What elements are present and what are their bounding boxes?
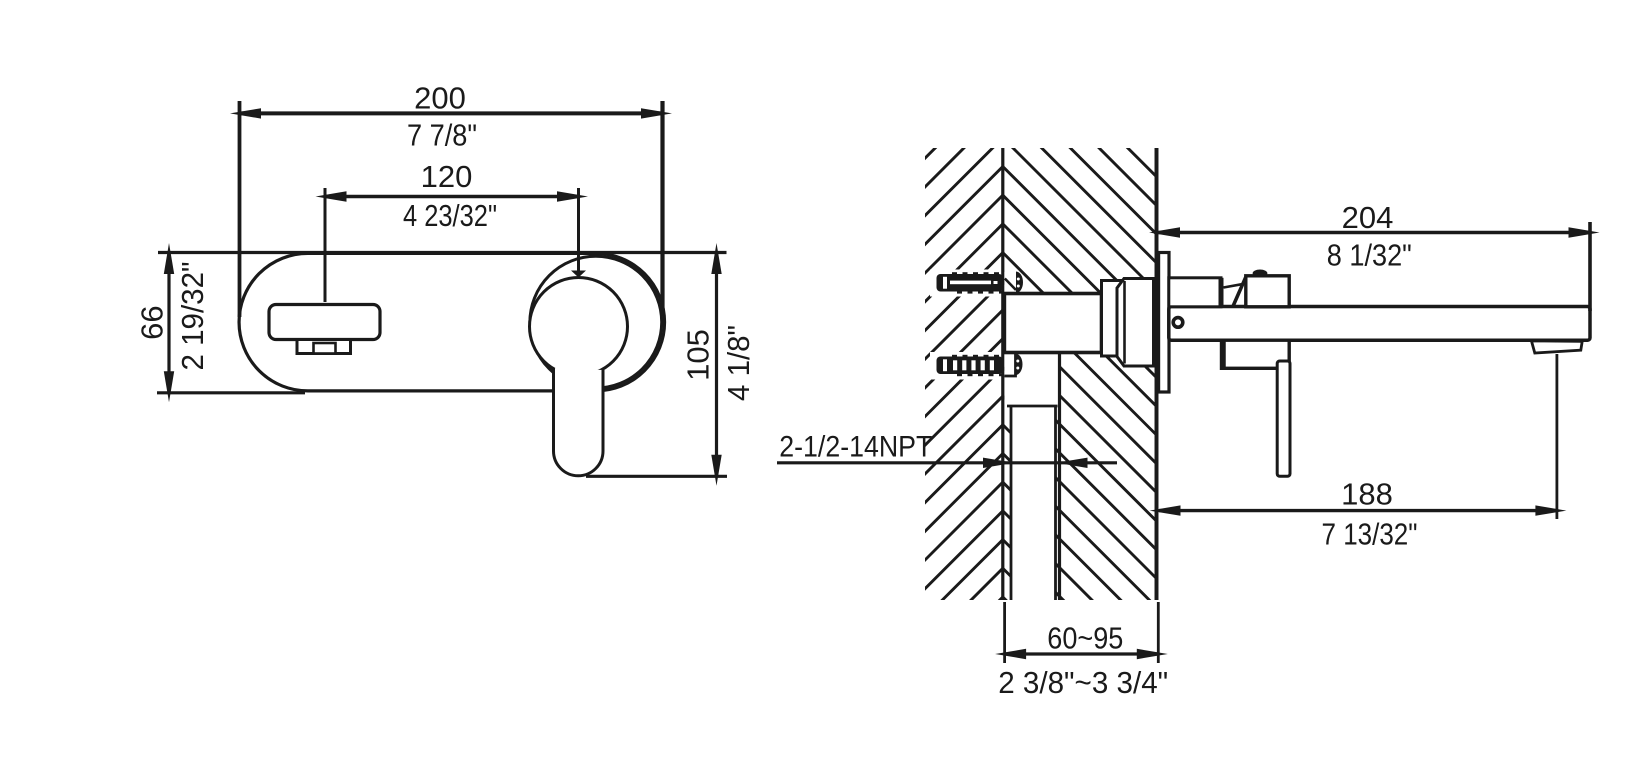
svg-text:105: 105 [681, 329, 716, 381]
svg-text:2 3/8"~3 3/4": 2 3/8"~3 3/4" [998, 665, 1168, 700]
svg-text:188: 188 [1341, 476, 1393, 511]
svg-text:204: 204 [1342, 200, 1394, 235]
svg-text:2-1/2-14NPT: 2-1/2-14NPT [779, 431, 932, 464]
svg-text:4 1/8": 4 1/8" [721, 325, 756, 401]
svg-text:7 13/32": 7 13/32" [1322, 517, 1418, 552]
svg-text:66: 66 [134, 305, 169, 339]
svg-text:2 19/32": 2 19/32" [175, 262, 210, 371]
svg-text:200: 200 [414, 80, 466, 115]
svg-text:120: 120 [421, 159, 473, 194]
svg-text:60~95: 60~95 [1047, 621, 1123, 656]
svg-text:7 7/8": 7 7/8" [407, 118, 477, 153]
svg-text:8 1/32": 8 1/32" [1327, 238, 1412, 273]
svg-text:4 23/32": 4 23/32" [403, 198, 497, 233]
